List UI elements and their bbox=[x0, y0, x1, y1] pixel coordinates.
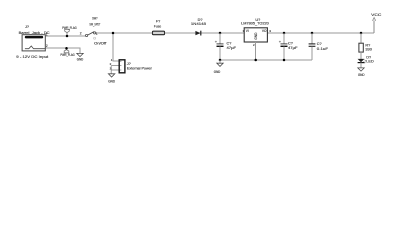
svg-text:47µF: 47µF bbox=[227, 46, 237, 50]
regulator U? box bbox=[244, 28, 267, 42]
capacitor C? 0.1uF: plates bbox=[309, 43, 316, 45]
LED bottom lead bbox=[360, 63, 362, 68]
svg-text:1: 1 bbox=[96, 32, 98, 36]
capacitor C? 47uF input: top lead bbox=[219, 33, 221, 44]
switch common terminal circle pin2 bbox=[86, 34, 88, 36]
switch lever bbox=[88, 32, 94, 35]
junction: switch output to connector bbox=[112, 32, 115, 35]
junction: 0.1uF cap node bbox=[311, 32, 314, 35]
wire: jack pin2 ground run bbox=[45, 48, 80, 53]
svg-text:GND: GND bbox=[108, 80, 115, 84]
barrel jack tip contact bbox=[25, 46, 45, 49]
wire: ground bus under regulator bbox=[220, 59, 312, 61]
svg-text:C?: C? bbox=[227, 42, 232, 46]
external power connector pin stubs bbox=[111, 66, 119, 74]
svg-text:SW_SPDT: SW_SPDT bbox=[89, 22, 100, 26]
svg-text:330: 330 bbox=[365, 48, 372, 52]
junction: LED branch node bbox=[360, 32, 363, 35]
junction: bus at input cap bbox=[219, 59, 222, 62]
junction: top pwr_flag bbox=[66, 35, 69, 38]
junction: bottom pwr_flag bbox=[65, 47, 68, 50]
capacitor C? 47uF output: top lead bbox=[283, 33, 285, 44]
wire: jack pin1 to switch common bbox=[45, 35, 85, 37]
ground: external power GND symbol bbox=[108, 74, 114, 77]
barrel jack sleeve bar bbox=[25, 36, 43, 39]
capacitor C? 47uF output: plus sign bbox=[279, 41, 281, 43]
LED emission arrows bbox=[364, 60, 366, 63]
junction: bus at regulator gnd bbox=[254, 59, 257, 62]
wire: switch pin1 to regulator input (top rail left) bbox=[96, 32, 245, 34]
junction: output cap 47uF node bbox=[283, 32, 286, 35]
capacitor C? 47uF input: bottom lead bbox=[219, 46, 221, 60]
capacitor C? 47uF input: plates bbox=[217, 43, 224, 45]
capacitor C? 0.1uF: bottom lead bbox=[311, 46, 313, 60]
regulator ground pin wire bbox=[255, 42, 257, 60]
svg-text:GND: GND bbox=[214, 70, 221, 74]
svg-text:J?: J? bbox=[25, 25, 29, 29]
LED cathode bar bbox=[358, 62, 365, 64]
switch throw terminal circle pin1 bbox=[94, 32, 96, 34]
svg-text:J?: J? bbox=[127, 62, 131, 66]
junction: bus at output cap bbox=[283, 59, 286, 62]
wire: switch junction down to external power pin1 bbox=[113, 33, 119, 61]
ground: LED GND symbol bbox=[358, 68, 364, 71]
capacitor C? 47uF input: plus sign bbox=[215, 41, 217, 43]
wire: regulator output to VCC corner (top rail right) bbox=[267, 32, 374, 34]
svg-text:VO: VO bbox=[262, 29, 267, 33]
resistor bottom lead bbox=[360, 52, 362, 59]
svg-text:47µF: 47µF bbox=[288, 46, 298, 50]
svg-text:0.1uF: 0.1uF bbox=[317, 47, 329, 51]
diode cathode bar bbox=[200, 31, 202, 36]
svg-text:GND: GND bbox=[358, 73, 365, 77]
junction: input cap node bbox=[219, 32, 222, 35]
fuse center line bbox=[153, 32, 165, 34]
svg-text:VCC: VCC bbox=[371, 13, 382, 17]
external power connector pin marks bbox=[120, 61, 121, 70]
svg-text:Fuse: Fuse bbox=[154, 24, 162, 28]
svg-text:GND: GND bbox=[254, 32, 258, 40]
svg-text:9 - 12V DC Input: 9 - 12V DC Input bbox=[16, 55, 49, 59]
fuse F? body bbox=[153, 31, 165, 35]
PWR_FLAG bottom flag bbox=[64, 48, 69, 53]
svg-text:LM7805_TO220: LM7805_TO220 bbox=[241, 22, 269, 26]
svg-text:PWR_FLAG: PWR_FLAG bbox=[62, 26, 77, 30]
ground: bus GND symbol bbox=[217, 63, 223, 66]
svg-text:LED: LED bbox=[366, 60, 374, 64]
svg-text:GND: GND bbox=[77, 57, 84, 61]
svg-text:External Power: External Power bbox=[127, 66, 153, 70]
PWR_FLAG top flag bbox=[65, 29, 70, 36]
svg-text:VI: VI bbox=[246, 29, 249, 33]
diode D? triangle bbox=[195, 31, 200, 35]
svg-text:F?: F? bbox=[156, 19, 160, 23]
svg-text:2: 2 bbox=[80, 31, 82, 35]
svg-text:2: 2 bbox=[46, 44, 48, 48]
external power connector J? box bbox=[119, 60, 125, 73]
resistor R? top lead bbox=[360, 33, 362, 43]
ground: bottom-left GND symbol bbox=[77, 53, 83, 56]
svg-text:PWR_FLAG: PWR_FLAG bbox=[60, 53, 75, 57]
capacitor C? 47uF output: bottom lead bbox=[283, 46, 285, 60]
resistor R? body bbox=[359, 43, 363, 52]
svg-text:C?: C? bbox=[288, 42, 293, 46]
capacitor C? 0.1uF: top lead bbox=[311, 33, 313, 44]
svg-text:C?: C? bbox=[317, 42, 322, 46]
svg-text:1: 1 bbox=[46, 33, 48, 37]
ground: bus GND stub bbox=[219, 60, 221, 63]
switch throw terminal circle pin3 bbox=[94, 37, 96, 39]
svg-text:On/Off: On/Off bbox=[94, 42, 107, 46]
VCC arrow head bbox=[373, 18, 376, 21]
barrel jack J? box bbox=[22, 35, 45, 51]
svg-text:SW?: SW? bbox=[92, 17, 97, 21]
wire: VCC stem corner bbox=[373, 21, 375, 33]
capacitor C? 47uF output: plates bbox=[281, 43, 288, 45]
svg-text:1N4148: 1N4148 bbox=[191, 22, 206, 26]
LED D? triangle bbox=[358, 59, 365, 62]
